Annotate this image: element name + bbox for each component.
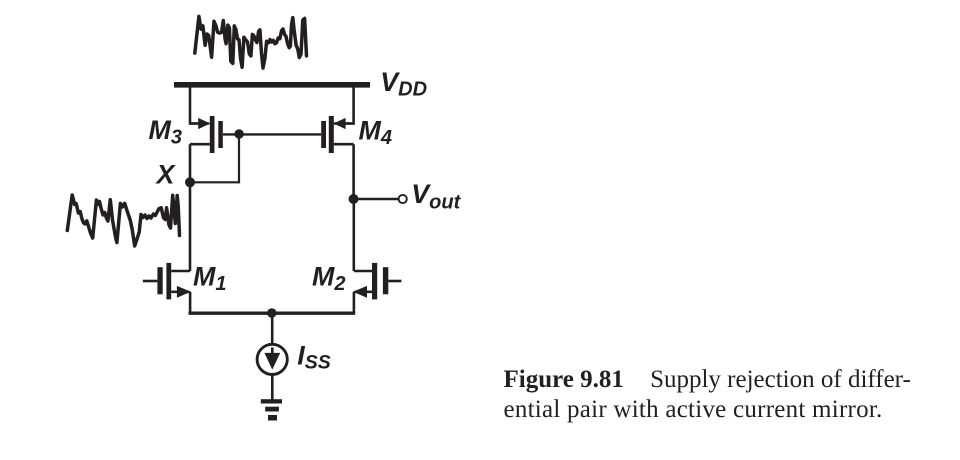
svg-text:M2: M2: [312, 262, 345, 296]
pmos M4: [321, 116, 353, 153]
svg-text:M1: M1: [193, 262, 226, 296]
svg-text:Vout: Vout: [411, 179, 461, 214]
svg-text:ISS: ISS: [297, 340, 330, 373]
nmos M1: [143, 263, 191, 300]
svg-text:M3: M3: [149, 115, 182, 149]
wire M3 drain to node X: [189, 144, 192, 182]
ground symbol: [261, 399, 282, 420]
junction dot tail node: [267, 308, 277, 318]
wire Vout node to output terminal: [354, 198, 399, 201]
noise source on VDD supply (top squiggle): [195, 16, 307, 68]
wire ISS to ground: [271, 374, 274, 400]
wire M3 source to VDD: [190, 84, 200, 124]
wire M1 source down to tail rail: [189, 292, 192, 313]
Vout terminal (open circle): [399, 195, 407, 203]
VDD rail: [174, 82, 370, 88]
svg-text:X: X: [155, 160, 177, 190]
wire M4 source to VDD: [344, 84, 354, 124]
node X junction dot: [185, 177, 195, 187]
wire Vout node to M2 drain: [352, 199, 355, 271]
noise source at node X (left squiggle): [67, 195, 179, 246]
wire tail node to current source ISS: [271, 313, 274, 346]
wire gate bus down to node X (diode connection of M3): [190, 134, 239, 182]
wire node X to M1 drain: [189, 182, 192, 271]
nmos M2: [353, 263, 401, 300]
figure caption: [504, 365, 944, 424]
wire M2 source down to tail rail: [353, 292, 356, 313]
svg-text:M4: M4: [359, 116, 392, 150]
node Vout junction dot: [349, 194, 359, 204]
pmos M3: [190, 116, 223, 153]
wire M4 drain to node Vout: [352, 144, 355, 199]
tail rail wire: [189, 312, 356, 315]
wire gate bus M3 to M4: [223, 133, 321, 135]
svg-text:VDD: VDD: [380, 67, 427, 101]
junction dot on gate bus: [234, 129, 243, 138]
current source ISS: [257, 344, 287, 374]
